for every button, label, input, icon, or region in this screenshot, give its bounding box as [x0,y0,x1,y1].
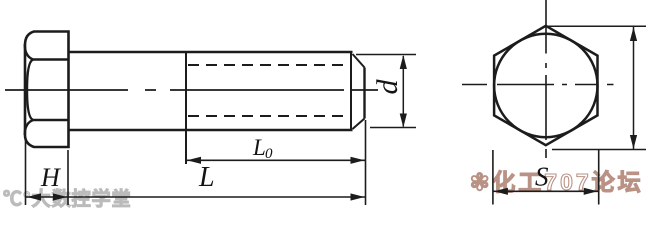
svg-text:L: L [252,135,266,160]
extension line head right [67,150,69,205]
dimension line L with H segment [26,196,366,198]
shank top line [69,51,353,54]
extension line L0 left [185,130,187,164]
watermark 化工707论坛 bottom-right [470,163,662,197]
arrow d bottom [400,114,407,128]
end chamfer bottom diagonal [353,119,365,130]
watermark logo bottom-left [3,184,153,211]
extension line e bottom [552,149,646,151]
dimension line L0 [186,159,366,161]
head bottom facet chamfer arc [25,120,33,135]
dimension line d [402,56,404,127]
extension line S left [492,150,494,205]
arrow L0 right [351,157,365,164]
svg-text:L: L [198,162,215,193]
head facet line upper [33,58,69,60]
thread start line [185,52,187,164]
end chamfer top diagonal [353,54,365,68]
extension line head left [25,140,27,205]
chamfer line at bolt end [350,52,352,130]
chamfer circle [494,34,597,137]
dimension line S [493,190,599,192]
arrow L0 left [187,157,201,164]
extension line d top [356,54,416,56]
extension line S right [598,150,600,205]
bolt end face [363,68,365,119]
hexagon head front view [494,26,597,145]
arrow L right [351,193,365,200]
extension line d bottom [370,127,416,129]
arrow L left [27,193,41,200]
bolt head outline [25,32,69,148]
svg-text:H: H [40,163,61,192]
svg-text:d: d [371,79,404,95]
thread root dashed line lower [188,115,352,117]
extension line e top [548,25,646,27]
svg-text:S: S [535,162,549,192]
head top facet chamfer arc [25,44,33,60]
vertical centerline hexagon [545,0,547,158]
arrow H right [53,193,67,200]
head middle facet arc [27,60,33,121]
extension line right (bolt end) [365,120,367,205]
dimension line e [633,27,635,149]
thread root dashed line upper [188,64,352,66]
arrow e top [630,27,637,41]
centerline bolt axis [5,89,378,91]
head facet line lower [33,119,69,121]
horizontal centerline hexagon [462,84,614,86]
arrow d top [400,55,407,69]
arrow S right [584,188,598,195]
arrow e bottom [630,135,637,149]
svg-text:0: 0 [265,146,273,162]
shank bottom line [69,129,353,132]
arrow S left [494,188,508,195]
